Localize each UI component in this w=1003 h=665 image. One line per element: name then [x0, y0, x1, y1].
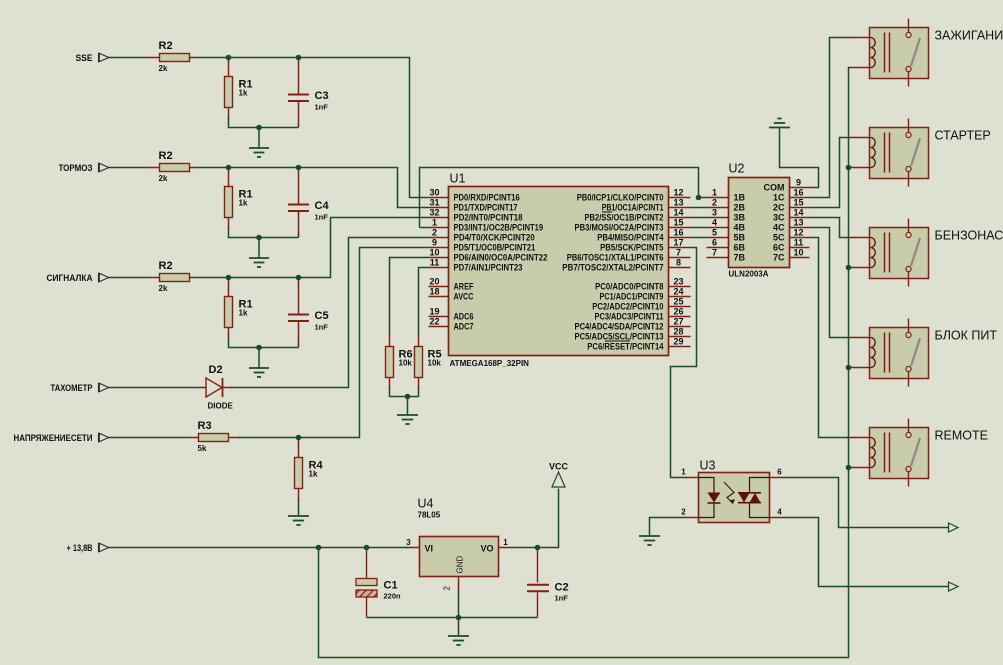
- svg-text:2C: 2C: [773, 203, 785, 213]
- svg-text:29: 29: [673, 337, 683, 347]
- svg-text:1: 1: [681, 468, 686, 477]
- svg-text:16: 16: [673, 228, 683, 238]
- svg-text:1C: 1C: [773, 193, 785, 203]
- svg-text:15: 15: [673, 218, 683, 228]
- svg-text:VCC: VCC: [549, 462, 569, 472]
- svg-text:2B: 2B: [734, 203, 746, 213]
- svg-text:PB5/SCK/PCINT5: PB5/SCK/PCINT5: [600, 243, 663, 253]
- svg-text:17: 17: [673, 238, 683, 248]
- svg-text:31: 31: [429, 198, 439, 208]
- svg-text:C1: C1: [384, 580, 398, 592]
- svg-text:7: 7: [712, 248, 717, 258]
- svg-text:3C: 3C: [773, 213, 785, 223]
- svg-text:6C: 6C: [773, 243, 785, 253]
- svg-text:11: 11: [430, 258, 440, 268]
- svg-text:1k: 1k: [239, 309, 248, 318]
- svg-text:9: 9: [432, 238, 437, 248]
- svg-text:GND: GND: [456, 556, 465, 574]
- svg-text:2: 2: [443, 586, 452, 591]
- svg-text:1B: 1B: [734, 193, 746, 203]
- svg-text:5B: 5B: [734, 233, 746, 243]
- svg-text:13: 13: [793, 218, 803, 228]
- svg-text:12: 12: [793, 228, 803, 238]
- svg-text:1nF: 1nF: [555, 594, 569, 603]
- svg-text:PD5/T1/OC0B/PCINT21: PD5/T1/OC0B/PCINT21: [454, 243, 536, 253]
- svg-text:ULN2003A: ULN2003A: [729, 270, 769, 279]
- svg-text:БЕНЗОНАСОС: БЕНЗОНАСОС: [935, 229, 1003, 243]
- svg-text:3: 3: [712, 208, 717, 218]
- svg-text:10: 10: [793, 248, 803, 258]
- svg-text:R2: R2: [159, 150, 173, 162]
- svg-text:СТАРТЕР: СТАРТЕР: [935, 129, 991, 143]
- svg-text:VO: VO: [480, 544, 493, 554]
- svg-text:1: 1: [432, 218, 437, 228]
- svg-text:PB4/MISO/PCINT4: PB4/MISO/PCINT4: [597, 233, 663, 243]
- svg-text:PC1/ADC1/PCINT9: PC1/ADC1/PCINT9: [600, 292, 664, 302]
- svg-text:1nF: 1nF: [315, 213, 329, 222]
- svg-text:PC6/RESET/PCINT14: PC6/RESET/PCINT14: [587, 342, 663, 352]
- svg-text:PB2/SS/OC1B/PCINT2: PB2/SS/OC1B/PCINT2: [585, 213, 664, 223]
- svg-text:БЛОК ПИТ: БЛОК ПИТ: [935, 329, 998, 343]
- svg-text:AREF: AREF: [454, 282, 474, 292]
- svg-text:220n: 220n: [384, 592, 402, 601]
- svg-text:19: 19: [429, 307, 439, 317]
- svg-text:PD4/T0/XCK/PCINT20: PD4/T0/XCK/PCINT20: [454, 233, 535, 243]
- svg-text:7: 7: [676, 248, 681, 258]
- svg-text:PB1/OC1A/PCINT1: PB1/OC1A/PCINT1: [602, 203, 664, 213]
- svg-text:28: 28: [673, 327, 683, 337]
- svg-text:13: 13: [673, 198, 683, 208]
- svg-text:1k: 1k: [239, 199, 248, 208]
- svg-text:24: 24: [673, 287, 683, 297]
- svg-text:PC5/ADC5/SCL/PCINT13: PC5/ADC5/SCL/PCINT13: [575, 332, 664, 342]
- svg-text:16: 16: [793, 188, 803, 198]
- svg-text:14: 14: [793, 208, 803, 218]
- svg-text:6B: 6B: [734, 243, 746, 253]
- svg-text:1nF: 1nF: [315, 103, 329, 112]
- svg-text:PB3/MOSI/OC2A/PCINT3: PB3/MOSI/OC2A/PCINT3: [575, 223, 664, 233]
- svg-text:2k: 2k: [159, 64, 168, 73]
- svg-text:27: 27: [673, 317, 683, 327]
- svg-text:15: 15: [793, 198, 803, 208]
- svg-text:10k: 10k: [399, 359, 413, 368]
- svg-text:20: 20: [429, 277, 439, 287]
- svg-text:U1: U1: [450, 172, 466, 186]
- svg-text:PD3/INT1/OC2B/PCINT19: PD3/INT1/OC2B/PCINT19: [454, 223, 544, 233]
- svg-text:10: 10: [429, 248, 439, 258]
- svg-text:SSE: SSE: [76, 53, 93, 64]
- svg-text:18: 18: [429, 287, 439, 297]
- svg-text:ТАХОМЕТР: ТАХОМЕТР: [51, 383, 94, 394]
- svg-text:ЗАЖИГАНИЕ: ЗАЖИГАНИЕ: [935, 29, 1003, 43]
- svg-text:PB6/TOSC1/XTAL1/PCINT6: PB6/TOSC1/XTAL1/PCINT6: [567, 253, 664, 263]
- svg-text:ТОРМОЗ: ТОРМОЗ: [59, 163, 93, 174]
- svg-text:3B: 3B: [734, 213, 746, 223]
- svg-text:2k: 2k: [159, 284, 168, 293]
- svg-text:ATMEGA168P_32PIN: ATMEGA168P_32PIN: [450, 359, 530, 368]
- svg-text:4: 4: [712, 218, 717, 228]
- svg-text:U2: U2: [729, 162, 745, 176]
- svg-text:PC2/ADC2/PCINT10: PC2/ADC2/PCINT10: [592, 302, 663, 312]
- svg-text:R2: R2: [159, 40, 173, 52]
- svg-text:5C: 5C: [773, 233, 785, 243]
- svg-text:СИГНАЛКА: СИГНАЛКА: [47, 273, 93, 284]
- svg-text:C4: C4: [315, 200, 330, 212]
- svg-text:1k: 1k: [309, 470, 318, 479]
- svg-text:6: 6: [777, 468, 782, 477]
- svg-text:C3: C3: [315, 90, 329, 102]
- svg-text:ADC6: ADC6: [454, 312, 474, 322]
- svg-text:PB0/ICP1/CLKO/PCINT0: PB0/ICP1/CLKO/PCINT0: [577, 193, 664, 203]
- svg-text:32: 32: [429, 208, 439, 218]
- svg-text:VI: VI: [425, 544, 434, 554]
- svg-text:PD6/AIN0/OC0A/PCINT22: PD6/AIN0/OC0A/PCINT22: [454, 253, 548, 263]
- svg-text:14: 14: [673, 208, 683, 218]
- svg-text:4C: 4C: [773, 223, 785, 233]
- svg-text:COM: COM: [764, 183, 785, 193]
- svg-text:23: 23: [673, 277, 683, 287]
- svg-text:U4: U4: [418, 497, 434, 511]
- svg-text:PD0/RXD/PCINT16: PD0/RXD/PCINT16: [454, 193, 520, 203]
- svg-text:1nF: 1nF: [315, 323, 329, 332]
- svg-text:5: 5: [712, 228, 717, 238]
- svg-text:26: 26: [673, 307, 683, 317]
- svg-text:6: 6: [712, 238, 717, 248]
- svg-text:C2: C2: [555, 582, 569, 594]
- svg-text:7C: 7C: [773, 253, 785, 263]
- svg-text:7B: 7B: [734, 253, 746, 263]
- svg-text:PC0/ADC0/PCINT8: PC0/ADC0/PCINT8: [595, 282, 663, 292]
- svg-text:REMOTE: REMOTE: [935, 429, 988, 443]
- svg-text:2: 2: [432, 228, 437, 238]
- svg-text:PD2/INT0/PCINT18: PD2/INT0/PCINT18: [454, 213, 523, 223]
- svg-text:12: 12: [673, 188, 683, 198]
- svg-text:1: 1: [503, 538, 508, 547]
- svg-text:2k: 2k: [159, 174, 168, 183]
- svg-text:PC4/ADC4/SDA/PCINT12: PC4/ADC4/SDA/PCINT12: [575, 322, 664, 332]
- svg-text:25: 25: [673, 297, 683, 307]
- svg-text:78L05: 78L05: [418, 511, 441, 520]
- svg-text:2: 2: [681, 508, 686, 517]
- svg-text:DIODE: DIODE: [208, 402, 234, 411]
- svg-text:PC3/ADC3/PCINT11: PC3/ADC3/PCINT11: [595, 312, 664, 322]
- svg-text:2: 2: [712, 198, 717, 208]
- svg-text:R3: R3: [198, 420, 212, 432]
- svg-text:+ 13,8В: + 13,8В: [67, 543, 93, 553]
- svg-text:3: 3: [406, 538, 411, 547]
- svg-text:1: 1: [712, 188, 717, 198]
- svg-text:10k: 10k: [428, 359, 442, 368]
- svg-text:9: 9: [796, 178, 801, 188]
- svg-text:U3: U3: [700, 459, 716, 473]
- svg-text:11: 11: [794, 238, 804, 248]
- svg-text:R2: R2: [159, 260, 173, 272]
- svg-text:PD7/AIN1/PCINT23: PD7/AIN1/PCINT23: [454, 263, 523, 273]
- svg-text:PD1/TXD/PCINT17: PD1/TXD/PCINT17: [454, 203, 518, 213]
- svg-text:8: 8: [676, 258, 681, 268]
- svg-text:22: 22: [429, 317, 439, 327]
- svg-text:30: 30: [429, 188, 439, 198]
- svg-text:D2: D2: [209, 364, 223, 376]
- svg-text:4: 4: [777, 508, 782, 517]
- svg-text:4B: 4B: [734, 223, 746, 233]
- svg-text:PB7/TOSC2/XTAL2/PCINT7: PB7/TOSC2/XTAL2/PCINT7: [562, 263, 663, 273]
- svg-text:C5: C5: [315, 310, 329, 322]
- svg-text:AVCC: AVCC: [454, 292, 474, 302]
- svg-text:5k: 5k: [198, 444, 207, 453]
- svg-text:НАПРЯЖЕНИЕСЕТИ: НАПРЯЖЕНИЕСЕТИ: [14, 433, 93, 444]
- svg-text:ADC7: ADC7: [454, 322, 474, 332]
- svg-text:1k: 1k: [239, 89, 248, 98]
